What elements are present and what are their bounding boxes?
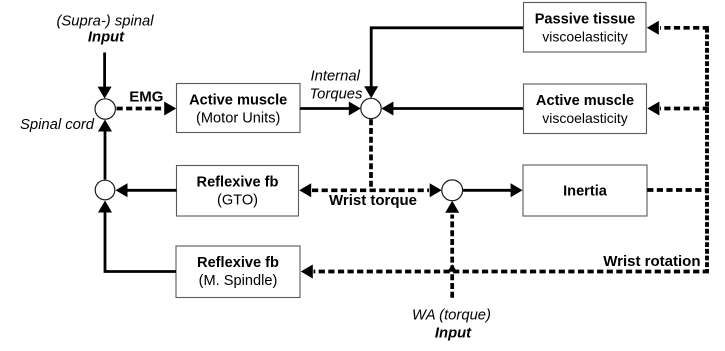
- wire Inertia output dashed to right vertical bus: [647, 188, 709, 192]
- label Internal Torques: [310, 69, 364, 103]
- wire left summation node up to spinal cord node: [98, 120, 112, 180]
- svg-text:Reflexive fb: Reflexive fb: [197, 175, 279, 191]
- svg-text:EMG: EMG: [129, 89, 163, 106]
- node wrist torque summation: [442, 180, 463, 201]
- label WA (torque) Input: [412, 308, 491, 342]
- svg-text:Inertia: Inertia: [563, 184, 608, 200]
- block Reflexive fb (GTO): [177, 166, 299, 217]
- svg-text:(Supra-) spinal: (Supra-) spinal: [56, 14, 154, 30]
- wire M. Spindle output up into left summation node: [98, 201, 176, 272]
- node internal torques summation: [361, 98, 381, 118]
- node spinal cord summation: [95, 99, 115, 119]
- svg-text:(M. Spindle): (M. Spindle): [199, 273, 278, 289]
- svg-text:WA (torque): WA (torque): [412, 308, 491, 324]
- svg-text:Input: Input: [435, 325, 472, 341]
- block Active muscle viscoelasticity: [524, 84, 647, 134]
- block Passive tissue viscoelasticity: [524, 3, 647, 53]
- svg-text:Wrist torque: Wrist torque: [329, 192, 417, 209]
- svg-text:Reflexive fb: Reflexive fb: [197, 255, 279, 271]
- wire active muscle viscoelasticity output to internal torques node: [381, 102, 523, 116]
- svg-text:(GTO): (GTO): [217, 193, 258, 209]
- svg-text:Torques: Torques: [310, 87, 364, 103]
- svg-text:Internal: Internal: [311, 69, 361, 85]
- wire Active muscle output to internal torques node: [300, 102, 361, 116]
- wire EMG dashed arrow to Active muscle: [117, 102, 177, 116]
- wire WA torque input dashed up into torque node: [445, 201, 459, 298]
- wire torque node to Inertia: [463, 183, 523, 197]
- svg-text:Input: Input: [88, 29, 125, 45]
- block Active muscle (Motor Units): [177, 84, 301, 133]
- label (Supra-) spinal Input: [56, 14, 154, 46]
- svg-text:viscoelasticity: viscoelasticity: [542, 110, 628, 126]
- wire passive tissue output to internal torques node: [364, 28, 523, 99]
- wire dashed arrow into Active muscle viscoelasticity box: [647, 102, 709, 116]
- svg-text:Active muscle: Active muscle: [536, 93, 634, 109]
- node left summation (reflexive feedback): [95, 180, 115, 200]
- wire GTO output to left summation node: [116, 183, 177, 197]
- wire right vertical dashed bus: [705, 28, 709, 272]
- block Reflexive fb (M. Spindle): [176, 246, 300, 298]
- wire internal torques node down to wrist torque line (dashed): [369, 119, 373, 190]
- svg-text:(Motor Units): (Motor Units): [196, 110, 280, 126]
- svg-text:Wrist rotation: Wrist rotation: [603, 253, 700, 270]
- wire wrist torque dashed double arrow (to GTO and to torque node): [299, 183, 442, 197]
- wire wrist rotation dashed line to M. Spindle box: [301, 265, 709, 279]
- wire dashed arrow into Passive tissue box: [647, 21, 709, 35]
- wire supra-spinal input arrow into spinal cord node: [98, 53, 112, 99]
- svg-text:Active muscle: Active muscle: [189, 92, 287, 108]
- block Inertia: [523, 165, 647, 216]
- svg-text:Passive tissue: Passive tissue: [535, 12, 636, 28]
- junction arrow where WA input crosses wrist rotation line: [447, 264, 457, 272]
- svg-text:Spinal cord: Spinal cord: [20, 117, 95, 133]
- svg-text:viscoelasticity: viscoelasticity: [542, 29, 628, 45]
